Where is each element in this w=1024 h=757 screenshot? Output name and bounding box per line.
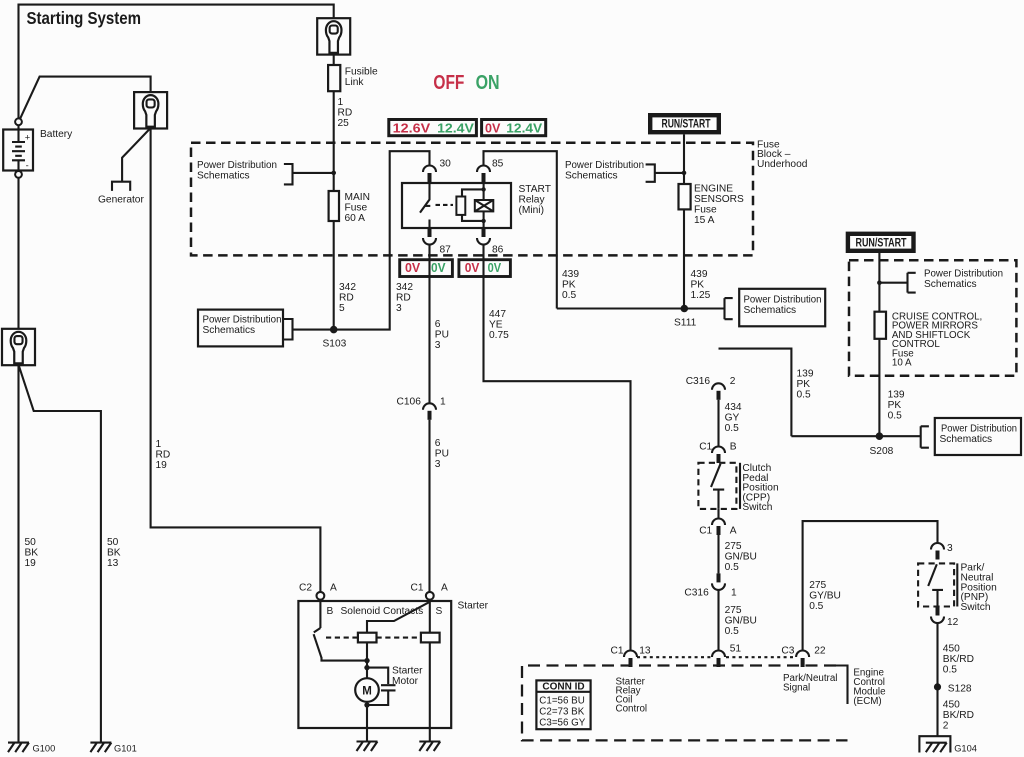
bracket PDS left bbox=[284, 164, 334, 184]
bracket PDS box to S103 bbox=[284, 319, 334, 340]
relay linkage dashed bbox=[436, 204, 454, 206]
connector C106 pin 1 bbox=[423, 403, 436, 420]
connector C1 pin A bbox=[712, 519, 725, 536]
svg-text:0V: 0V bbox=[488, 260, 502, 275]
RUN/START box 2 bbox=[848, 234, 914, 251]
battery cell plates bbox=[17, 125, 19, 171]
wire lug to G101 50 BK 13 bbox=[19, 366, 101, 743]
svg-text:87: 87 bbox=[440, 245, 452, 256]
svg-text:MAIN: MAIN bbox=[345, 192, 370, 203]
svg-text:C1: C1 bbox=[699, 442, 712, 453]
svg-text:0.5: 0.5 bbox=[725, 423, 739, 434]
svg-text:439: 439 bbox=[562, 269, 579, 280]
CPP switch dashed box bbox=[698, 463, 736, 509]
wire C316-1 to ECM pin 51 bbox=[717, 590, 719, 650]
svg-text:PK: PK bbox=[888, 400, 902, 411]
wire MAIN fuse to S103 bbox=[333, 221, 335, 330]
svg-text:PK: PK bbox=[797, 379, 811, 390]
svg-text:B: B bbox=[327, 606, 334, 617]
wire fuse to S111 bbox=[683, 209, 685, 308]
wire S208 bus to C316 branch bbox=[719, 349, 921, 437]
relay coil junction dots bbox=[481, 187, 485, 191]
battery BAT box bbox=[3, 130, 33, 171]
bracket S208 to PDS box bbox=[921, 426, 929, 447]
power distribution schematics box at S208 bbox=[935, 418, 1021, 455]
svg-text:BK: BK bbox=[107, 548, 121, 559]
svg-text:ENGINE: ENGINE bbox=[694, 184, 733, 195]
starter S terminal wire bbox=[429, 600, 431, 742]
svg-text:S111: S111 bbox=[674, 318, 697, 329]
starter box bbox=[298, 601, 451, 728]
svg-text:Schematics: Schematics bbox=[565, 171, 618, 182]
fuse MAIN 60 A bbox=[329, 191, 339, 221]
svg-text:2: 2 bbox=[730, 376, 736, 387]
svg-text:S128: S128 bbox=[948, 684, 972, 695]
ECM dashed box bbox=[522, 666, 848, 741]
wire PNP pin 3 to ECM C3-22 275 GY/BU bbox=[803, 521, 938, 650]
solenoid dashed line bbox=[326, 637, 421, 639]
svg-text:PU: PU bbox=[435, 330, 449, 341]
fuse ENGINE SENSORS 15 A bbox=[679, 184, 691, 209]
svg-text:450: 450 bbox=[943, 700, 960, 711]
svg-text:50: 50 bbox=[25, 537, 37, 548]
ground G100 bbox=[8, 743, 29, 753]
wire C106 to starter C1 bbox=[428, 420, 430, 592]
RUN/START box 1 bbox=[650, 115, 719, 132]
svg-text:Signal: Signal bbox=[783, 683, 810, 694]
svg-text:22: 22 bbox=[814, 646, 826, 657]
bracket PDS right bbox=[879, 273, 915, 293]
wire top bus from battery to fusible link lug bbox=[19, 5, 334, 119]
PNP label bar bbox=[956, 563, 958, 606]
svg-text:PK: PK bbox=[562, 280, 576, 291]
splice S208 bbox=[876, 432, 884, 440]
bracket PDS engine sensors bbox=[646, 164, 684, 181]
svg-text:RD: RD bbox=[396, 293, 411, 304]
svg-text:C1: C1 bbox=[411, 583, 424, 594]
voltage box 0V 0V right bbox=[459, 260, 511, 277]
svg-text:Power Distribution: Power Distribution bbox=[941, 424, 1017, 435]
ECM label corner bbox=[836, 666, 848, 705]
svg-text:G100: G100 bbox=[33, 744, 56, 754]
svg-text:0.5: 0.5 bbox=[725, 626, 739, 637]
svg-text:275: 275 bbox=[725, 605, 742, 616]
svg-text:RUN/START: RUN/START bbox=[662, 116, 711, 130]
svg-text:S: S bbox=[436, 606, 443, 617]
wire lug to generator bbox=[122, 128, 150, 181]
voltage box 12.6V 12.4V bbox=[389, 120, 477, 136]
wire RUN/START to engine sensors fuse bbox=[683, 135, 685, 185]
starter B terminal wire and switch bbox=[319, 600, 321, 628]
ground G101 bbox=[90, 743, 111, 753]
svg-text:GY/BU: GY/BU bbox=[809, 591, 841, 602]
wire C1-A to C316-1 275 GN/BU bbox=[717, 535, 719, 573]
CONN ID table bbox=[536, 680, 590, 729]
svg-text:19: 19 bbox=[156, 460, 168, 471]
wire S103 up to relay pin 30 bbox=[334, 151, 430, 329]
svg-text:Generator: Generator bbox=[98, 195, 144, 206]
relay pin 85 connector bbox=[477, 166, 490, 183]
svg-text:GY: GY bbox=[725, 413, 740, 424]
svg-text:447: 447 bbox=[489, 309, 506, 320]
node junction blade bbox=[364, 658, 369, 663]
node tap to power distribution bbox=[331, 171, 336, 176]
node tap to PDS right bbox=[877, 280, 882, 285]
svg-text:15 A: 15 A bbox=[694, 215, 715, 226]
svg-text:450: 450 bbox=[943, 644, 960, 655]
PNP switch dashed box bbox=[918, 563, 954, 606]
svg-text:C316: C316 bbox=[684, 588, 709, 599]
svg-text:Switch: Switch bbox=[742, 502, 772, 513]
node junction capacitor top bbox=[364, 665, 369, 670]
svg-text:434: 434 bbox=[725, 402, 742, 413]
svg-text:12.4V: 12.4V bbox=[437, 120, 474, 135]
wire CPP to C1-A bbox=[717, 509, 719, 519]
svg-text:C1: C1 bbox=[611, 646, 624, 657]
wire lug to fusible link bbox=[333, 55, 335, 65]
wire battery negative to G100 bbox=[17, 178, 19, 743]
svg-text:RD: RD bbox=[156, 450, 171, 461]
wire lug to starter C2 1 RD 19 bbox=[151, 128, 321, 592]
svg-text:439: 439 bbox=[691, 269, 708, 280]
svg-text:19: 19 bbox=[25, 558, 37, 569]
solenoid contact rect 2 bbox=[421, 633, 440, 643]
svg-text:1: 1 bbox=[338, 97, 344, 108]
node tap to PDS bbox=[682, 171, 687, 176]
svg-text:13: 13 bbox=[639, 646, 651, 657]
svg-text:Schematics: Schematics bbox=[744, 305, 797, 316]
ECM connector C1 pin 13 bbox=[624, 651, 637, 668]
svg-text:0.5: 0.5 bbox=[725, 562, 739, 573]
svg-text:1: 1 bbox=[156, 439, 162, 450]
svg-text:C2=73 BK: C2=73 BK bbox=[539, 707, 584, 718]
voltage box 0V 12.4V bbox=[482, 120, 546, 136]
svg-text:0V: 0V bbox=[485, 120, 501, 135]
svg-text:0V: 0V bbox=[431, 260, 446, 275]
svg-text:A: A bbox=[330, 583, 337, 594]
power distribution schematics box at S111 bbox=[739, 289, 825, 327]
relay pin 87 connector bbox=[423, 228, 436, 245]
svg-text:Schematics: Schematics bbox=[197, 171, 250, 182]
svg-text:12: 12 bbox=[947, 617, 959, 628]
ECM connector pin 51 bbox=[712, 651, 725, 668]
svg-text:B: B bbox=[730, 442, 737, 453]
ECM connector C3 pin 22 bbox=[796, 651, 809, 668]
relay coil wires bbox=[483, 183, 485, 228]
svg-text:Fusible: Fusible bbox=[345, 67, 378, 78]
ground G104 bbox=[926, 743, 947, 753]
voltage box 0V 0V left bbox=[400, 260, 453, 277]
wire cruise fuse to S208 bbox=[878, 339, 880, 436]
svg-text:0.5: 0.5 bbox=[797, 390, 811, 401]
svg-text:60 A: 60 A bbox=[345, 213, 366, 224]
svg-text:139: 139 bbox=[888, 390, 905, 401]
svg-text:12.4V: 12.4V bbox=[506, 120, 542, 135]
svg-text:342: 342 bbox=[396, 282, 413, 293]
relay armature plate bbox=[456, 197, 465, 215]
svg-text:51: 51 bbox=[730, 644, 742, 655]
capacitor plates bbox=[381, 685, 396, 690]
svg-text:1: 1 bbox=[731, 588, 737, 599]
svg-text:Starter: Starter bbox=[458, 601, 489, 612]
connector C1 pin B bbox=[712, 447, 725, 464]
svg-text:0.75: 0.75 bbox=[489, 330, 509, 341]
svg-text:139: 139 bbox=[797, 369, 814, 380]
wire RUN/START 2 down bbox=[878, 251, 880, 312]
svg-text:+: + bbox=[25, 132, 30, 142]
svg-text:Power Distribution: Power Distribution bbox=[924, 269, 1003, 280]
relay pin 30 connector bbox=[423, 166, 436, 183]
svg-text:3: 3 bbox=[947, 543, 953, 554]
relay armature loop bbox=[462, 189, 484, 221]
svg-text:C2: C2 bbox=[299, 583, 312, 594]
connector PNP pin 3 bbox=[931, 543, 944, 560]
start relay box U1 bbox=[402, 183, 511, 228]
svg-text:C3: C3 bbox=[781, 646, 794, 657]
svg-text:C316: C316 bbox=[686, 376, 711, 387]
ring terminal lug on battery negative cable bbox=[2, 329, 35, 365]
svg-text:C106: C106 bbox=[397, 397, 422, 408]
svg-text:BK/RD: BK/RD bbox=[943, 654, 974, 665]
svg-text:25: 25 bbox=[338, 118, 350, 129]
relay coil crossed box bbox=[475, 200, 494, 211]
svg-text:A: A bbox=[441, 583, 448, 594]
svg-text:50: 50 bbox=[107, 537, 119, 548]
svg-text:5: 5 bbox=[339, 303, 345, 314]
svg-text:0.5: 0.5 bbox=[943, 665, 957, 676]
svg-text:Starter: Starter bbox=[392, 666, 423, 677]
svg-text:Fuse: Fuse bbox=[345, 203, 368, 214]
svg-text:GN/BU: GN/BU bbox=[725, 616, 757, 627]
svg-text:85: 85 bbox=[492, 159, 504, 170]
svg-text:RD: RD bbox=[338, 108, 353, 119]
svg-text:0.5: 0.5 bbox=[809, 601, 823, 612]
svg-text:M: M bbox=[362, 685, 372, 697]
svg-text:S208: S208 bbox=[870, 446, 894, 457]
wire motor to ground bbox=[366, 705, 368, 742]
svg-text:Battery: Battery bbox=[40, 129, 73, 140]
svg-text:SENSORS: SENSORS bbox=[694, 194, 744, 205]
connector C316 pin 2 bbox=[712, 383, 725, 400]
svg-text:10 A: 10 A bbox=[892, 358, 912, 369]
svg-text:275: 275 bbox=[809, 580, 826, 591]
svg-text:Underhood: Underhood bbox=[757, 159, 808, 170]
svg-text:(Mini): (Mini) bbox=[519, 205, 544, 216]
svg-text:Switch: Switch bbox=[961, 602, 991, 613]
wire pin 87 down to C106 bbox=[428, 245, 430, 404]
svg-text:RUN/START: RUN/START bbox=[856, 235, 907, 249]
svg-text:Link: Link bbox=[345, 77, 365, 88]
svg-text:12.6V: 12.6V bbox=[393, 120, 431, 135]
svg-text:275: 275 bbox=[725, 541, 742, 552]
connector C2 pin A circle bbox=[317, 592, 325, 600]
wire C316-2 to C1-B 434 GY bbox=[717, 400, 719, 447]
wire fusible link to MAIN fuse bbox=[333, 91, 335, 191]
ground starter motor bbox=[357, 742, 378, 752]
svg-text:1: 1 bbox=[440, 397, 446, 408]
splice S111 bbox=[681, 305, 689, 313]
svg-text:342: 342 bbox=[339, 282, 356, 293]
svg-text:CONN ID: CONN ID bbox=[542, 682, 584, 693]
generator symbol bbox=[112, 182, 130, 191]
svg-text:Starting System: Starting System bbox=[27, 8, 142, 28]
ring terminal lug on fusible link feed bbox=[317, 18, 350, 54]
splice S103 bbox=[330, 326, 338, 334]
connector C1 pin A circle bbox=[426, 592, 434, 600]
svg-text:ON: ON bbox=[476, 72, 500, 94]
svg-text:Relay: Relay bbox=[519, 195, 546, 206]
connector C316 pin 1 bbox=[712, 573, 725, 590]
svg-text:86: 86 bbox=[492, 245, 504, 256]
wire contact 1 to motor bbox=[366, 642, 368, 702]
bracket S111 to PDS box bbox=[725, 298, 733, 319]
svg-text:START: START bbox=[519, 184, 551, 195]
svg-text:Fuse: Fuse bbox=[694, 205, 717, 216]
power distribution schematics box at S103 bbox=[198, 310, 283, 347]
PNP switch blade bbox=[928, 564, 937, 586]
svg-text:YE: YE bbox=[489, 320, 503, 331]
node junction capacitor bottom bbox=[364, 702, 369, 707]
svg-text:0V: 0V bbox=[405, 260, 421, 275]
svg-text:0.5: 0.5 bbox=[888, 411, 902, 422]
svg-text:6: 6 bbox=[435, 319, 441, 330]
svg-text:13: 13 bbox=[107, 558, 119, 569]
svg-text:C1=56 BU: C1=56 BU bbox=[539, 696, 584, 707]
svg-text:C3=56 GY: C3=56 GY bbox=[539, 718, 585, 729]
relay pin 86 connector bbox=[477, 228, 490, 245]
CPP label bar bbox=[739, 463, 741, 509]
svg-text:G104: G104 bbox=[954, 744, 977, 754]
svg-text:GN/BU: GN/BU bbox=[725, 552, 757, 563]
svg-text:0.5: 0.5 bbox=[562, 290, 576, 301]
connector PNP pin 12 bbox=[931, 607, 944, 624]
battery B+ terminal circle bbox=[15, 118, 22, 125]
svg-text:RD: RD bbox=[339, 293, 354, 304]
svg-text:Schematics: Schematics bbox=[203, 325, 256, 336]
wire battery positive tap to generator lug bbox=[20, 77, 151, 119]
svg-text:A: A bbox=[730, 526, 737, 537]
svg-text:BK: BK bbox=[25, 548, 39, 559]
svg-text:6: 6 bbox=[435, 438, 441, 449]
wire PNP to G104 450 BK/RD bbox=[936, 623, 938, 736]
svg-text:-: - bbox=[26, 161, 29, 171]
svg-text:Schematics: Schematics bbox=[924, 279, 977, 290]
wire S to solenoid contact bbox=[367, 602, 430, 633]
svg-text:30: 30 bbox=[440, 159, 452, 170]
splice S128 bbox=[934, 683, 941, 690]
ground G104 case box bbox=[919, 736, 950, 752]
svg-text:3: 3 bbox=[435, 340, 441, 351]
svg-text:BK/RD: BK/RD bbox=[943, 710, 974, 721]
svg-text:3: 3 bbox=[396, 303, 402, 314]
svg-text:0V: 0V bbox=[465, 260, 480, 275]
capacitor branch wire bbox=[367, 668, 388, 705]
svg-text:PU: PU bbox=[435, 449, 449, 460]
ring terminal lug on generator feed bbox=[134, 92, 167, 128]
svg-text:Motor: Motor bbox=[392, 676, 419, 687]
svg-text:Power Distribution: Power Distribution bbox=[203, 315, 282, 326]
svg-text:(ECM): (ECM) bbox=[853, 696, 881, 707]
svg-text:1.25: 1.25 bbox=[691, 290, 711, 301]
svg-text:G101: G101 bbox=[114, 744, 137, 754]
battery negative terminal circle bbox=[15, 171, 22, 178]
IP fuse block dashed box bbox=[849, 260, 1016, 376]
motor M circle bbox=[355, 678, 379, 702]
fusible link fuse symbol bbox=[328, 65, 340, 91]
svg-text:PK: PK bbox=[691, 280, 705, 291]
svg-text:S103: S103 bbox=[323, 339, 347, 350]
relay switch contact bbox=[420, 183, 430, 213]
wire pin 85 up and over to 439 PK 0.5 bbox=[484, 151, 557, 308]
svg-text:Schematics: Schematics bbox=[940, 434, 993, 445]
fuse block underhood dashed box bbox=[191, 143, 753, 256]
svg-text:Power Distribution: Power Distribution bbox=[565, 160, 644, 171]
svg-text:Power Distribution: Power Distribution bbox=[197, 160, 277, 171]
wire S111 bus bbox=[557, 307, 725, 309]
fuse CRUISE CONTROL 10 A bbox=[875, 312, 887, 339]
svg-text:Control: Control bbox=[616, 704, 648, 715]
svg-text:Power Distribution: Power Distribution bbox=[744, 295, 822, 306]
wire pin 86 down to ECM C1-13 447 YE bbox=[484, 245, 631, 651]
svg-text:2: 2 bbox=[943, 721, 949, 732]
ground starter solenoid bbox=[419, 742, 440, 752]
svg-text:C1: C1 bbox=[699, 526, 712, 537]
svg-text:OFF: OFF bbox=[433, 72, 464, 94]
solenoid contact rect 1 bbox=[358, 633, 377, 643]
svg-text:3: 3 bbox=[435, 459, 441, 470]
ECM connector dotted link bbox=[637, 656, 794, 658]
CPP switch blade bbox=[711, 464, 721, 487]
